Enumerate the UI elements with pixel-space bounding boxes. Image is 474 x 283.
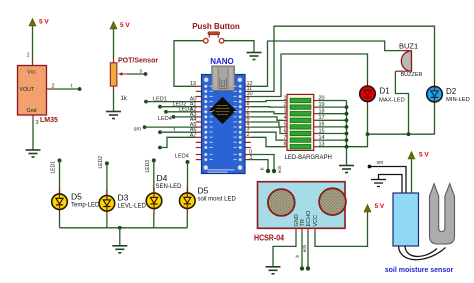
buzzer body [395,51,411,72]
wire HCSR VCC to 5V [315,212,368,246]
wire nano pin12 to buzzer [251,41,403,86]
pin stub LM35 pin2 [47,88,52,90]
LED D5 Temp-LED [52,189,68,215]
node LED4 [172,115,176,119]
wire D5 soil to bottom bus [186,214,188,228]
node + jog wire to A7 [158,146,162,150]
nano board U2 [202,75,246,174]
svg-text:7: 7 [283,135,286,141]
svg-text:D5: D5 [198,186,209,196]
pin stub LM35 pin3 [32,115,34,120]
svg-text:5 V: 5 V [120,22,130,29]
chip (ATmega diamond) [209,97,236,124]
pin labels A0-A7 [190,97,197,139]
svg-text:4: 4 [283,115,286,121]
svg-text:Push Button: Push Button [192,22,240,31]
node LED2 [158,105,162,109]
transducer right [313,158,353,246]
ground (LM35) [26,150,41,157]
svg-text:sm: sm [377,160,384,166]
svg-text:LED3: LED3 [145,160,151,173]
wire down to D3 [106,163,108,196]
wire D5 Temp to bottom bus [59,215,61,228]
bargraph body DV1 [287,94,314,150]
wire wiper to node [127,73,146,75]
svg-text:1k: 1k [121,96,128,102]
wire t to A6 [160,131,196,133]
wire bargraph bus [346,101,348,166]
svg-text:5 V: 5 V [419,152,429,159]
svg-text:ECHO: ECHO [306,210,312,227]
wire LED2 to A1 [160,106,196,108]
svg-text:LED2: LED2 [98,156,104,169]
svg-text:1: 1 [27,53,30,59]
svg-text:13: 13 [190,81,196,87]
svg-text:LED4: LED4 [158,116,172,122]
wire module gnd (black) [379,175,403,194]
wire button right to ground [224,41,254,53]
power 5V arrow (soil) [408,152,429,160]
svg-text:5 V: 5 V [375,203,385,210]
wire HCSR GND to ground [273,233,296,267]
svg-text:BUZZER: BUZZER [401,72,423,78]
wire pin0 to node [251,155,274,172]
ground (push button) [247,53,262,60]
svg-text:LM35: LM35 [40,117,58,124]
svg-text:LEVL-LED: LEVL-LED [118,204,147,210]
svg-text:D1: D1 [380,87,391,96]
wire bus to ground [119,228,121,246]
node LED1 [144,100,148,104]
bargraph right stubs [314,101,318,147]
svg-text:6: 6 [283,128,286,134]
bargraph left pin numbers 1..8 [283,95,286,147]
node LED1 (top of D5 Temp) [58,159,62,163]
wire nano pin11 to D2 [251,26,435,91]
wire LED1 to A0 [146,101,196,103]
svg-text:sm: sm [134,127,142,133]
wire button left to nano pin13 [174,41,203,87]
wire return to bargraph bus [347,134,368,147]
svg-text:2: 2 [283,102,286,108]
wire LED cathode bus [60,227,188,229]
svg-text:D2: D2 [446,87,457,96]
ground (soil, black) [371,180,386,187]
soil sensor module [393,193,419,246]
ground (LED bus) [112,246,127,253]
svg-text:VOUT: VOUT [20,87,35,93]
wire LM35 pin3 to ground [32,120,34,151]
node sm (left) [143,125,147,129]
node LED4 (bottom) [186,160,190,164]
soil probe fork [430,184,455,244]
node (pot wiper) [144,72,148,76]
svg-text:5: 5 [283,122,286,128]
svg-text:ech: ech [277,166,282,174]
node LED3 (top of D4) [152,158,156,162]
svg-text:NANO: NANO [210,57,234,66]
board bottom silk text [208,169,235,170]
wire D4 to bottom bus [153,214,155,228]
wire D2 bottom down [434,107,436,134]
svg-text:MIN-LED: MIN-LED [446,97,470,103]
svg-text:POT/Sensor: POT/Sensor [118,58,158,65]
push button SW1 [204,32,224,43]
wire LED3 to A2 [166,111,196,113]
svg-text:8: 8 [283,142,286,148]
wire buzzer bottom to bus [395,71,408,134]
wire D1 bottom down [367,107,369,135]
svg-text:D4: D4 [157,173,168,183]
ground (POT) [106,112,121,119]
wire down to D4 [153,160,155,193]
wire D3 to bottom bus [106,216,108,228]
pin stub LM35 pin1 [32,62,34,66]
LM35 body U1 [18,66,47,116]
svg-text:5 V: 5 V [39,19,49,26]
svg-text:soil moisture sensor: soil moisture sensor [385,267,454,274]
svg-text:HCSR-04: HCSR-04 [254,234,284,243]
node LED2 (top of D3) [105,161,109,165]
node sm (right) [368,165,372,169]
wire LED4 to A3 [174,116,197,118]
wire HCSR ECHO down [307,233,309,269]
pin numbers 12..2 [247,81,253,138]
wire nano pin10 to D1 [251,54,368,97]
node b (TR) [300,266,304,270]
wires nano pins 9..2 to bargraph pins 1..8 [251,101,284,147]
LED D4 SEN-LED [146,188,162,214]
wire sm to module (black) [370,167,407,194]
wire VOUT to node t [52,88,80,90]
junction LED bus [118,226,122,230]
svg-text:ech: ech [302,245,307,253]
svg-text:3: 3 [283,109,286,115]
ground (HCSR) [266,267,281,274]
wire sm to A5 [145,126,196,128]
svg-text:VCC: VCC [313,215,319,227]
wires bargraph right pins to bus [317,101,346,147]
nano pin pads and stubs [196,85,251,161]
LED D3 LEVL-LED [99,190,115,216]
bargraph segments [290,98,311,149]
svg-text:D5: D5 [71,192,82,202]
svg-text:1: 1 [283,95,286,101]
node LED3 [164,110,168,114]
bargraph right pin numbers 20..13 [319,95,325,147]
power 5V arrow (POT) [110,22,130,30]
svg-text:SEN-LED: SEN-LED [156,184,183,190]
svg-text:Gnd: Gnd [26,108,36,114]
node t [78,87,82,91]
wire down to D5 Temp [59,161,61,195]
svg-text:LED1: LED1 [51,161,57,174]
wire 5V to module [411,159,413,194]
bus junctions [345,105,349,148]
power 5V arrow (HCSR) [364,203,385,212]
svg-text:BUZ1: BUZ1 [399,42,418,51]
power 5V arrow (LM35) [29,19,49,27]
pin stub POT top [113,58,115,64]
svg-text:2: 2 [247,132,250,138]
pot wiper arrow [118,72,127,76]
svg-text:MAX-LED: MAX-LED [379,97,405,103]
LED D5 soil moist [180,188,196,214]
svg-text:soil moist LED: soil moist LED [198,197,237,203]
node b [266,169,270,173]
potentiometer RV1 body [110,63,117,86]
svg-text:3: 3 [36,120,39,126]
svg-text:D3: D3 [118,193,129,203]
transducer left [261,159,301,247]
svg-text:LED-BARGRAPH: LED-BARGRAPH [285,155,332,161]
mounting holes [204,78,208,82]
junction (D1 column) [366,132,370,136]
HCSR pin labels rotated [294,210,319,227]
ground (bargraph bus) [339,166,354,173]
node ech (ECHO) [306,266,310,270]
HCSR pin stubs [296,228,315,232]
svg-text:LED4: LED4 [175,154,189,160]
svg-text:Vcc: Vcc [27,70,36,76]
bargraph left stubs [283,101,287,147]
probe cable 1 (black) [399,246,446,260]
wire 5V to POT top [113,29,115,59]
junction (buzzer column) [407,132,411,136]
svg-text:Temp-LED: Temp-LED [71,203,100,209]
wire POT to ground [113,91,115,112]
HCSR-04 body [258,182,346,229]
pin stub POT bottom [113,86,115,91]
usb connector [212,66,235,91]
wire LED4 node down to D5 soil moist LED [187,162,189,194]
probe cable 2 (black) [405,246,437,257]
wire HCSR TR down [301,233,303,269]
wire LM35 pin1 to 5V [32,26,34,63]
wire pin1 to node [251,160,268,171]
node t (left) [158,130,162,134]
wire cathode bus y=134 [368,133,435,135]
node ech [272,169,276,173]
